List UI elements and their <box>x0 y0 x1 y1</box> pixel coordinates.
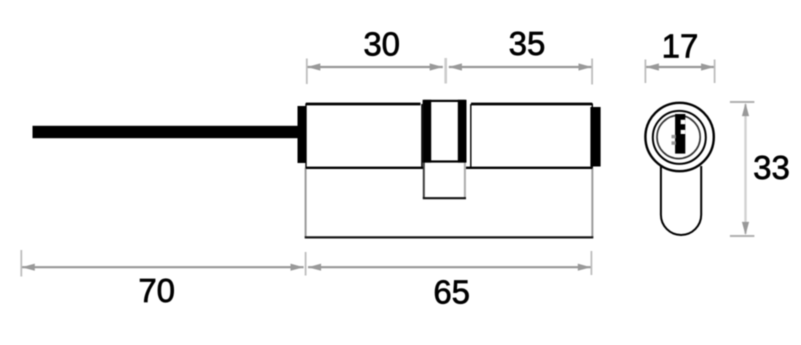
svg-text:70: 70 <box>138 272 175 309</box>
svg-text:35: 35 <box>509 25 546 62</box>
svg-text:17: 17 <box>662 27 699 64</box>
svg-text:30: 30 <box>363 25 400 62</box>
svg-text:33: 33 <box>753 149 790 186</box>
svg-text:65: 65 <box>433 274 470 311</box>
